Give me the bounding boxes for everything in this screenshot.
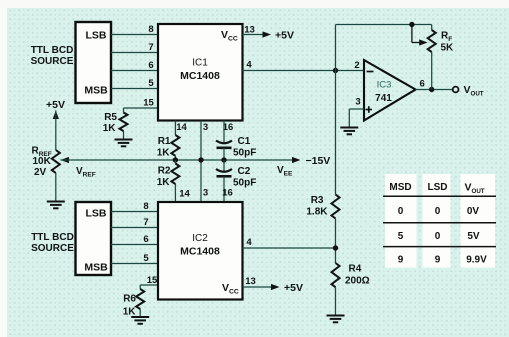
svg-text:IC1: IC1 xyxy=(192,58,208,69)
svg-text:C2: C2 xyxy=(238,166,251,177)
junction R1/R2 on bus xyxy=(173,157,178,162)
wire box1 pin6 xyxy=(111,70,158,72)
svg-text:5K: 5K xyxy=(441,43,455,54)
svg-text:LSB: LSB xyxy=(86,208,107,220)
ground under R_REF xyxy=(47,202,65,209)
svg-text:8: 8 xyxy=(148,24,153,35)
wire feedback top run xyxy=(336,24,432,26)
svg-text:R3: R3 xyxy=(311,195,324,206)
svg-text:10K: 10K xyxy=(33,156,52,167)
svg-text:4: 4 xyxy=(246,237,252,248)
svg-text:9: 9 xyxy=(435,255,441,266)
svg-text:13: 13 xyxy=(245,276,256,287)
svg-text:+5V: +5V xyxy=(46,99,65,111)
wire box1 pin8 xyxy=(111,34,158,36)
svg-text:5: 5 xyxy=(143,253,149,264)
wire IC1 pin3 straight to IC2 pin3 xyxy=(200,121,202,203)
svg-text:13: 13 xyxy=(244,25,255,36)
ground under R5 xyxy=(115,140,133,147)
plus input mark xyxy=(366,109,373,111)
wire box1 pin7 xyxy=(111,52,158,54)
vertical feedback / ladder wire xyxy=(335,25,337,195)
wire box1 pin5 xyxy=(111,88,158,90)
resistor R5 1K xyxy=(123,131,125,140)
wire R2 to IC2 pin14 xyxy=(174,184,176,202)
svg-text:14: 14 xyxy=(176,122,187,133)
svg-text:R1: R1 xyxy=(158,136,171,147)
capacitor C2 50pF xyxy=(223,160,225,173)
wire box2 pin7 xyxy=(111,227,158,229)
svg-text:IC3: IC3 xyxy=(377,80,392,91)
RF wiper xyxy=(411,25,413,43)
svg-text:3: 3 xyxy=(203,122,208,133)
svg-text:+5V: +5V xyxy=(284,282,303,294)
wire box2 pin5 xyxy=(111,263,158,265)
svg-text:7: 7 xyxy=(143,217,148,228)
svg-text:6: 6 xyxy=(420,79,425,90)
table rules xyxy=(383,195,496,197)
svg-text:50pF: 50pF xyxy=(233,178,256,189)
svg-text:1.8K: 1.8K xyxy=(306,207,328,218)
wire box2 pin6 xyxy=(111,244,158,246)
svg-text:2: 2 xyxy=(354,60,359,71)
svg-text:SOURCE: SOURCE xyxy=(31,56,74,67)
svg-text:TTL BCD: TTL BCD xyxy=(31,232,74,243)
junction wiper tap xyxy=(409,22,414,27)
svg-text:LSB: LSB xyxy=(86,30,107,42)
capacitor C1 50pF xyxy=(223,121,225,145)
svg-text:14: 14 xyxy=(179,189,190,200)
svg-text:200Ω: 200Ω xyxy=(345,276,370,287)
svg-text:1K: 1K xyxy=(157,177,171,188)
resistor R6 1K xyxy=(136,289,144,309)
svg-text:R4: R4 xyxy=(349,264,362,275)
wire VEE bus to -15V xyxy=(61,159,296,161)
op-amp U3: IC3 741 xyxy=(364,60,416,121)
svg-text:9.9V: 9.9V xyxy=(466,255,487,266)
wire pin15 IC1 xyxy=(124,107,159,109)
svg-text:MC1408: MC1408 xyxy=(180,246,220,258)
ground under R4 xyxy=(327,316,345,323)
ground under R6 xyxy=(131,317,149,324)
ground at op-amp pin3 xyxy=(340,128,358,135)
svg-text:MSB: MSB xyxy=(84,85,108,97)
output terminal circle xyxy=(453,87,459,93)
svg-text:0V: 0V xyxy=(467,206,480,217)
svg-text:5V: 5V xyxy=(467,231,480,242)
svg-text:5: 5 xyxy=(148,78,154,89)
svg-text:15: 15 xyxy=(147,275,158,286)
resistor R3 1.8K xyxy=(332,195,340,219)
svg-text:SOURCE: SOURCE xyxy=(31,243,74,254)
svg-text:IC2: IC2 xyxy=(192,233,208,244)
wire op-amp pin3 to ground xyxy=(349,108,364,110)
junction IC2 pin4 on ladder xyxy=(333,245,338,250)
svg-text:2V: 2V xyxy=(34,167,47,178)
svg-text:6: 6 xyxy=(148,60,153,71)
svg-text:R6: R6 xyxy=(123,294,136,305)
TTL BCD source box 1 (LSB/MSB) xyxy=(76,22,112,103)
IC U2: IC2 MC1408 xyxy=(158,202,243,300)
svg-text:R5: R5 xyxy=(104,112,117,123)
svg-text:TTL BCD: TTL BCD xyxy=(31,45,74,56)
svg-text:LSD: LSD xyxy=(428,182,448,193)
wire pin15 IC2 xyxy=(140,284,158,286)
potentiometer R_REF 10K 2V xyxy=(52,150,60,173)
svg-text:MC1408: MC1408 xyxy=(180,70,220,82)
resistor R2 1K xyxy=(174,160,176,164)
wire box2 pin8 xyxy=(111,211,158,213)
svg-text:8: 8 xyxy=(143,201,148,212)
svg-text:5: 5 xyxy=(398,231,404,242)
svg-text:1K: 1K xyxy=(157,147,171,158)
minus input mark xyxy=(367,71,374,73)
svg-text:4: 4 xyxy=(246,60,252,71)
svg-text:741: 741 xyxy=(375,93,392,104)
svg-text:15: 15 xyxy=(143,98,154,109)
TTL BCD source box 2 (LSB/MSB) xyxy=(76,202,112,275)
svg-text:0: 0 xyxy=(435,231,441,242)
junction pin3 line on bus xyxy=(198,157,203,162)
svg-text:−15V: −15V xyxy=(306,155,331,167)
junction RF bottom on output xyxy=(429,87,434,92)
svg-text:MSD: MSD xyxy=(389,182,411,193)
svg-text:MSB: MSB xyxy=(84,262,108,274)
svg-text:6: 6 xyxy=(143,234,148,245)
wiper arrow of R_REF joining VREF bus xyxy=(61,157,70,163)
truth table column strips xyxy=(385,174,417,268)
svg-text:7: 7 xyxy=(148,42,153,53)
svg-text:3: 3 xyxy=(203,188,208,199)
svg-text:C1: C1 xyxy=(238,136,251,147)
junction summing node at op-amp input xyxy=(333,68,338,73)
svg-text:1K: 1K xyxy=(123,307,137,318)
svg-text:0: 0 xyxy=(398,206,404,217)
svg-text:16: 16 xyxy=(222,188,233,199)
svg-text:+5V: +5V xyxy=(275,29,294,41)
potentiometer RF 5K xyxy=(431,25,433,31)
svg-text:50pF: 50pF xyxy=(233,148,256,159)
svg-text:9: 9 xyxy=(398,255,404,266)
svg-text:R2: R2 xyxy=(158,166,171,177)
junction C1/C2 on bus xyxy=(221,157,226,162)
resistor R4 200ohm xyxy=(332,263,340,287)
wire IC1 pin14 lead xyxy=(174,121,176,136)
IC U1: IC1 MC1408 xyxy=(158,24,243,121)
svg-text:1K: 1K xyxy=(103,123,117,134)
svg-text:0: 0 xyxy=(435,206,441,217)
resistor R1 1K xyxy=(171,135,179,156)
svg-text:3: 3 xyxy=(355,97,360,108)
